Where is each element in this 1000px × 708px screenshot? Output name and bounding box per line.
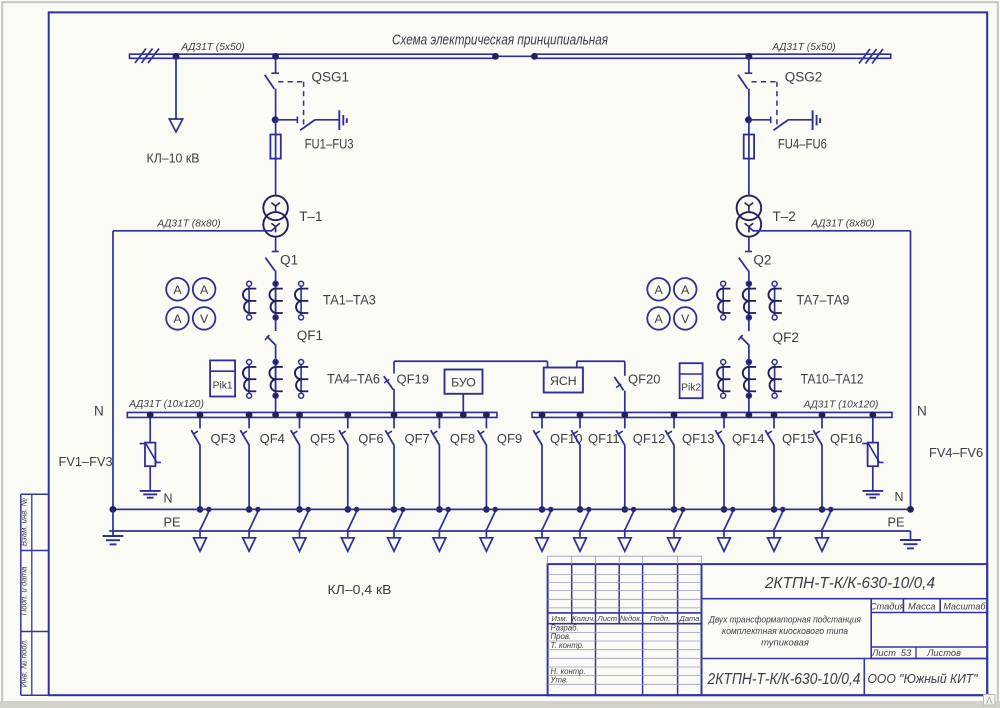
- wire QF5 to PE bus: [299, 445, 301, 510]
- feeder breaker QF11: [579, 417, 581, 428]
- 0.4kV bus N right (double line): [532, 411, 892, 413]
- node QF7 on bus: [391, 412, 398, 419]
- feeder breaker QF7: [393, 417, 395, 428]
- disconnector QSG1: [271, 72, 279, 74]
- wire bus to FV1-FV3: [149, 417, 151, 442]
- feeder breaker QF6: [347, 417, 349, 428]
- wire bus to FV4-FV6: [872, 417, 874, 442]
- svg-text:комплектная киоскового типа: комплектная киоскового типа: [722, 626, 848, 637]
- svg-text:QF6: QF6: [358, 431, 383, 446]
- wire QF15 to PE bus: [773, 445, 775, 510]
- feeder breaker QF9: [485, 417, 487, 428]
- circuit breaker QF2: [740, 336, 749, 345]
- PE bus: [113, 508, 911, 510]
- N-switch blade QF9: [487, 512, 495, 530]
- node QF6 on bus: [344, 412, 351, 419]
- current transformers ТА4-ТА6: [248, 362, 250, 396]
- cable arrow QF5: [293, 538, 306, 552]
- svg-text:Q2: Q2: [753, 253, 771, 268]
- ammeter A5: [674, 278, 697, 301]
- cable arrow QF15: [768, 538, 781, 552]
- svg-text:Изм.: Изм.: [551, 614, 567, 623]
- svg-text:Λ: Λ: [986, 696, 993, 707]
- current transformers ТА7-ТА9: [722, 284, 724, 318]
- feeder breaker QF15: [773, 417, 775, 428]
- svg-text:АД31Т (5х50): АД31Т (5х50): [771, 42, 835, 53]
- wire QF12 to PE bus: [624, 445, 626, 510]
- feeder breaker QF13: [673, 417, 675, 428]
- node QF6 PE tap: [354, 507, 359, 512]
- wire QF7 to cable arrow: [393, 529, 395, 538]
- svg-text:QF7: QF7: [405, 431, 430, 446]
- node QF15 PE: [771, 506, 778, 513]
- svg-text:QF9: QF9: [497, 431, 522, 446]
- svg-text:QF11: QF11: [588, 431, 620, 446]
- svg-text:ТА7–ТА9: ТА7–ТА9: [796, 293, 849, 308]
- wire bus to QSG2: [748, 56, 750, 73]
- node right below disconnector: [745, 116, 752, 123]
- svg-text:FU4–FU6: FU4–FU6: [778, 136, 827, 151]
- hatch marks right bus end: [859, 49, 870, 64]
- node QF10 PE: [539, 506, 546, 513]
- ammeter A4: [647, 278, 670, 301]
- wire KL-10 drop: [175, 56, 177, 118]
- fuse FU4–FU6: [744, 135, 754, 159]
- wire QF14 to PE bus: [723, 445, 725, 510]
- svg-text:АД31Т (8х80): АД31Т (8х80): [810, 219, 874, 230]
- svg-text:тупиковая: тупиковая: [761, 638, 809, 649]
- ammeter A1: [166, 278, 189, 301]
- transformer Т–1: [263, 196, 288, 221]
- hatch marks left bus end: [135, 49, 146, 64]
- wire node to fuse FU1–FU3: [275, 120, 277, 135]
- cable arrow QF12: [618, 538, 631, 552]
- node QF3 PE: [197, 506, 204, 513]
- feeder breaker QF8: [438, 417, 440, 428]
- node KL-10 tap: [173, 53, 180, 60]
- node bus link right: [531, 53, 538, 60]
- node QF12 PE: [622, 506, 629, 513]
- node QF16 PE tap: [828, 507, 833, 512]
- N-switch blade QF14: [724, 512, 732, 530]
- node QF12 PE tap: [631, 507, 636, 512]
- svg-text:№док.: №док.: [620, 614, 642, 623]
- node QF15 PE tap: [780, 507, 785, 512]
- revision rows: [548, 573, 702, 575]
- svg-text:Т–2: Т–2: [773, 209, 796, 224]
- svg-text:АД31Т (5х50): АД31Т (5х50): [180, 42, 244, 53]
- cable arrow QF10: [536, 538, 549, 552]
- wire QF19 riser and link to ЯСН: [393, 361, 395, 373]
- node QF11 on bus: [577, 412, 584, 419]
- revision columns: [571, 564, 573, 624]
- node FV4-FV6 on bus: [869, 412, 876, 419]
- current transformers ТА1-ТА3: [248, 284, 250, 318]
- svg-text:FV4–FV6: FV4–FV6: [929, 445, 983, 460]
- svg-text:V: V: [200, 312, 209, 326]
- feeder breaker QF12: [624, 417, 626, 428]
- wire transformer to Q1: [275, 237, 277, 252]
- watermark corner: [984, 695, 996, 706]
- N-switch blade QF11: [580, 512, 588, 530]
- node QF9 on bus: [483, 412, 490, 419]
- cable arrow QF3: [194, 538, 207, 552]
- svg-text:QF14: QF14: [732, 431, 765, 446]
- earth symbol of QSG1: [338, 110, 340, 130]
- svg-text:Взам. инв. №: Взам. инв. №: [20, 498, 29, 546]
- node PE left end: [110, 506, 117, 513]
- node QF11 PE: [577, 506, 584, 513]
- svg-text:А: А: [173, 312, 182, 326]
- wire QF9 to cable arrow: [485, 529, 487, 538]
- svg-text:АД31Т (8х80): АД31Т (8х80): [156, 219, 220, 230]
- voltmeter V2: [674, 307, 697, 330]
- node PE right end: [907, 506, 914, 513]
- node QF3 PE tap: [206, 507, 211, 512]
- node QF9 PE: [483, 506, 490, 513]
- wire FV4-FV6 to earth: [872, 466, 874, 490]
- ammeter A6: [647, 307, 670, 330]
- N-switch blade QF12: [625, 512, 633, 530]
- N-switch blade QF10: [542, 512, 550, 530]
- node QF7 PE: [391, 506, 398, 513]
- node right bus tap: [746, 53, 753, 60]
- node QF14 PE tap: [730, 507, 735, 512]
- wire QF3 to PE bus: [199, 445, 201, 510]
- wire QF8 to cable arrow: [438, 529, 440, 538]
- wire QF10 to cable arrow: [541, 529, 543, 538]
- node QF4 PE tap: [255, 507, 260, 512]
- wire QF7 to PE bus: [393, 445, 395, 510]
- wire QF2 to lower CT row: [748, 344, 750, 412]
- node FV1-FV3 on bus: [147, 412, 154, 419]
- svg-text:PE: PE: [164, 515, 181, 530]
- svg-text:Утв.: Утв.: [550, 676, 569, 685]
- wire FV1-FV3 to earth: [149, 466, 151, 490]
- cable arrow KL-10: [169, 119, 182, 132]
- voltmeter V1: [193, 307, 216, 330]
- svg-text:Пров.: Пров.: [551, 632, 572, 641]
- svg-text:ТА10–ТА12: ТА10–ТА12: [801, 372, 864, 387]
- svg-text:QSG2: QSG2: [785, 70, 823, 85]
- node QF14 on bus: [721, 412, 728, 419]
- 10kV bus section 1 (double line): [130, 53, 496, 55]
- earth symbol right: [900, 539, 921, 541]
- node left below disconnector: [272, 116, 279, 123]
- svg-text:Стадия: Стадия: [870, 602, 905, 612]
- N-switch blade QF16: [822, 512, 830, 530]
- switch Q1: [272, 251, 279, 253]
- circuit breaker QF20: [614, 377, 623, 391]
- wire QF9 to PE bus: [485, 445, 487, 510]
- wire QF16 to PE bus: [821, 445, 823, 510]
- node main left on bus: [272, 412, 279, 419]
- node QF12 on bus: [621, 412, 628, 419]
- svg-text:ТА1–ТА3: ТА1–ТА3: [323, 293, 376, 308]
- earthing switch of QSG1: [276, 119, 298, 121]
- wire QF5 to cable arrow: [299, 529, 301, 538]
- cable arrow QF14: [718, 538, 731, 552]
- svg-text:Двух трансформаторная подстанц: Двух трансформаторная подстанция: [708, 615, 861, 626]
- doc number cell: [702, 598, 988, 600]
- svg-text:Q1: Q1: [280, 253, 298, 268]
- 10kV bus section 2 (double line): [534, 53, 890, 55]
- relay box Pik1: [210, 360, 235, 396]
- svg-text:QF5: QF5: [310, 431, 335, 446]
- feeder breaker QF3: [199, 417, 201, 428]
- earth symbol of QSG2: [812, 110, 814, 130]
- circuit breaker QF19: [384, 376, 393, 389]
- current transformers ТА10-ТА12: [722, 362, 724, 396]
- node QF15 on bus: [771, 412, 778, 419]
- surge arrester FV1-FV3: [145, 443, 155, 467]
- wire АД31Т (8х80) left: [113, 230, 271, 232]
- cable arrow QF13: [668, 538, 681, 552]
- wire QF6 to cable arrow: [347, 529, 349, 538]
- ammeter A3: [166, 307, 189, 330]
- wire QF11 to cable arrow: [579, 529, 581, 538]
- header band Изм..Дата: [548, 612, 702, 614]
- bottom grey band: [0, 701, 1000, 708]
- cable arrow QF9: [480, 538, 493, 552]
- svg-text:Листов: Листов: [926, 648, 961, 658]
- node QF9 PE tap: [493, 507, 498, 512]
- svg-text:А: А: [173, 283, 182, 297]
- N-switch blade QF4: [250, 512, 258, 530]
- node QF8 PE: [436, 506, 443, 513]
- bus link wire: [496, 55, 535, 57]
- node QF8 on bus: [436, 412, 443, 419]
- svg-text:QF4: QF4: [260, 431, 285, 446]
- node QF8 PE tap: [446, 507, 451, 512]
- node QF16 on bus: [819, 412, 826, 419]
- wire АД31Т (8х80) right: [753, 230, 910, 232]
- svg-text:Подп. и дата: Подп. и дата: [20, 566, 29, 615]
- cable arrow QF11: [574, 538, 587, 552]
- svg-text:АД31Т (10х120): АД31Т (10х120): [803, 400, 879, 411]
- wire QF11 to PE bus: [579, 445, 581, 510]
- svg-text:2КТПН-Т-К/К-630-10/0,4: 2КТПН-Т-К/К-630-10/0,4: [764, 575, 935, 592]
- signature rows: [548, 631, 702, 633]
- svg-text:53: 53: [901, 648, 912, 658]
- N-switch blade QF15: [774, 512, 782, 530]
- svg-text:БУО: БУО: [451, 376, 476, 390]
- wire QF8 to PE bus: [438, 445, 440, 510]
- cable arrow QF6: [341, 538, 354, 552]
- feeder breaker QF5: [299, 417, 301, 428]
- svg-text:ООО "Южный КИТ": ООО "Южный КИТ": [868, 671, 979, 686]
- svg-text:FU1–FU3: FU1–FU3: [305, 136, 354, 151]
- wire QF14 to cable arrow: [723, 529, 725, 538]
- svg-text:2КТПН-Т-К/К-630-10/0,4: 2КТПН-Т-К/К-630-10/0,4: [707, 671, 861, 688]
- svg-text:АД31Т (10х120): АД31Т (10х120): [128, 399, 204, 410]
- cable arrow QF8: [433, 538, 446, 552]
- cable arrow QF16: [816, 538, 829, 552]
- wire QF12 to cable arrow: [624, 529, 626, 538]
- svg-text:FV1–FV3: FV1–FV3: [59, 454, 113, 469]
- wire fuse to transformer Т–2: [748, 159, 750, 196]
- svg-text:Лист: Лист: [871, 648, 896, 658]
- node QF5 PE: [296, 506, 303, 513]
- surge arrester FV4-FV6: [868, 443, 878, 467]
- svg-text:Т–1: Т–1: [299, 209, 322, 224]
- dashed link QSG1 to earth switch: [278, 81, 303, 83]
- svg-text:Лист: Лист: [597, 614, 618, 623]
- earthing switch of QSG2: [749, 119, 771, 121]
- revision table extension above title block: [548, 555, 702, 557]
- svg-text:QF16: QF16: [830, 431, 863, 446]
- switch Q2: [745, 251, 752, 253]
- wire QF13 to PE bus: [673, 445, 675, 510]
- cable arrow QF7: [388, 538, 401, 552]
- wire QSG2 to node: [748, 89, 750, 120]
- svg-text:N: N: [895, 490, 904, 504]
- wire БУО to bus: [462, 394, 464, 413]
- circuit breaker QF1: [267, 336, 276, 345]
- svg-text:N: N: [164, 492, 173, 506]
- svg-text:QF3: QF3: [211, 431, 236, 446]
- feeder breaker QF4: [248, 417, 250, 428]
- node QF6 PE: [345, 506, 352, 513]
- earth symbol FV4-FV6: [862, 490, 883, 492]
- node QF7 PE tap: [400, 507, 405, 512]
- N-switch blade QF7: [394, 512, 402, 530]
- fuse FU1–FU3: [270, 135, 280, 159]
- node QF3 on bus: [197, 412, 204, 419]
- wire Q1 to CT row: [275, 271, 277, 331]
- wire ЯСН to QF20: [576, 361, 578, 367]
- N-switch blade QF6: [348, 512, 356, 530]
- wire QF20 to bus: [624, 391, 626, 413]
- node QF13 PE: [671, 506, 678, 513]
- svg-text:QF19: QF19: [397, 372, 430, 387]
- svg-text:КЛ–10 кВ: КЛ–10 кВ: [147, 151, 200, 166]
- svg-text:QF20: QF20: [628, 372, 661, 387]
- control box БУО: [445, 370, 483, 394]
- svg-text:А: А: [654, 312, 663, 326]
- node QF11 PE tap: [586, 507, 591, 512]
- svg-text:Pik2: Pik2: [681, 382, 701, 393]
- wire QF13 to cable arrow: [673, 529, 675, 538]
- ground bus: [109, 530, 910, 532]
- svg-text:N: N: [917, 404, 927, 419]
- N-switch blade QF13: [674, 512, 682, 530]
- node БУО on bus: [460, 412, 467, 419]
- svg-text:Масштаб: Масштаб: [943, 602, 986, 612]
- wire QSG1 to node: [275, 89, 277, 120]
- svg-text:QSG1: QSG1: [312, 70, 350, 85]
- node QF5 on bus: [296, 412, 303, 419]
- svg-text:Дата: Дата: [678, 614, 699, 623]
- wire right earth stub: [910, 531, 912, 539]
- svg-text:ТА4–ТА6: ТА4–ТА6: [327, 372, 380, 387]
- svg-text:QF1: QF1: [297, 328, 323, 343]
- earth symbol left: [103, 535, 124, 537]
- title block frame: [548, 564, 988, 695]
- N-switch blade QF5: [300, 512, 308, 530]
- ammeter A2: [193, 278, 216, 301]
- node QF10 PE tap: [548, 507, 553, 512]
- 0.4kV bus N left (double line): [127, 411, 497, 413]
- wire QF19 to bus: [393, 389, 395, 413]
- node QF13 PE tap: [680, 507, 685, 512]
- node QF4 on bus: [246, 412, 253, 419]
- svg-text:ЯСН: ЯСН: [550, 374, 577, 388]
- cable arrow QF4: [243, 538, 256, 552]
- svg-text:QF8: QF8: [450, 431, 475, 446]
- N-switch blade QF3: [200, 512, 208, 530]
- svg-text:Инв. № подл.: Инв. № подл.: [20, 639, 29, 687]
- wire QF3 to cable arrow: [199, 529, 201, 538]
- svg-text:А: А: [200, 283, 209, 297]
- svg-text:V: V: [681, 312, 690, 326]
- left margin column boxes: [20, 494, 22, 695]
- node QF13 on bus: [671, 412, 678, 419]
- wire QF4 to cable arrow: [248, 529, 250, 538]
- svg-text:Масса: Масса: [908, 602, 936, 612]
- dashed link QSG2 to earth switch: [752, 81, 777, 83]
- svg-text:КЛ–0,4 кВ: КЛ–0,4 кВ: [328, 582, 392, 597]
- node QF10 on bus: [539, 412, 546, 419]
- feeder breaker QF10: [541, 417, 543, 428]
- wire fuse to transformer Т–1: [275, 159, 277, 196]
- transformer Т–2: [737, 196, 762, 221]
- wire node to fuse FU4–FU6: [748, 120, 750, 135]
- svg-text:А: А: [681, 283, 690, 297]
- node main right on bus: [746, 412, 753, 419]
- svg-text:Н. контр.: Н. контр.: [551, 667, 586, 676]
- node bus link left: [492, 53, 499, 60]
- feeder breaker QF14: [723, 417, 725, 428]
- svg-text:N: N: [94, 404, 104, 419]
- svg-text:QF12: QF12: [633, 431, 666, 446]
- feeder breaker QF16: [821, 417, 823, 428]
- wire bus to QSG1: [275, 56, 277, 73]
- node QF4 PE: [246, 506, 253, 513]
- svg-text:А: А: [654, 283, 663, 297]
- wire QF1 to lower CT row: [275, 344, 277, 412]
- svg-text:Т. контр.: Т. контр.: [551, 641, 585, 650]
- aux supply box ЯСН: [544, 368, 583, 393]
- wire QF6 to PE bus: [347, 445, 349, 510]
- svg-text:PE: PE: [888, 515, 905, 530]
- wire QF4 to PE bus: [248, 445, 250, 510]
- svg-text:QF2: QF2: [773, 330, 799, 345]
- Стадия Масса Масштаб header: [870, 599, 872, 659]
- relay box Pik2: [680, 363, 703, 398]
- wire QF15 to cable arrow: [773, 529, 775, 538]
- N-switch blade QF8: [440, 512, 448, 530]
- bottom doc number cell: [702, 658, 988, 660]
- svg-text:QF15: QF15: [782, 431, 815, 446]
- wire QF10 to PE bus: [541, 445, 543, 510]
- node left bus tap: [272, 53, 279, 60]
- svg-text:QF13: QF13: [682, 431, 715, 446]
- wire Q2 to CT row: [748, 271, 750, 331]
- svg-text:QF10: QF10: [550, 431, 583, 446]
- svg-text:Подп.: Подп.: [650, 614, 670, 623]
- node QF16 PE: [819, 506, 826, 513]
- node QF14 PE: [721, 506, 728, 513]
- svg-text:Схема электрическая принципиал: Схема электрическая принципиальная: [392, 33, 608, 49]
- node QF5 PE tap: [306, 507, 311, 512]
- disconnector QSG2: [745, 72, 753, 74]
- svg-text:Колич.: Колич.: [572, 614, 595, 623]
- Лист row: [871, 646, 987, 648]
- wire QF16 to cable arrow: [821, 529, 823, 538]
- wire left earth stub: [112, 509, 114, 535]
- earth symbol FV1-FV3: [140, 490, 161, 492]
